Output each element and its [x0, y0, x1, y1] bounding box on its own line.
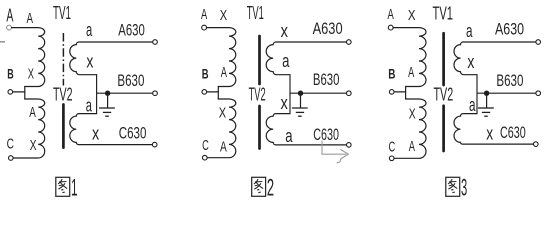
svg-text:A: A: [201, 6, 207, 23]
svg-text:A630: A630: [495, 20, 524, 39]
svg-text:X: X: [409, 106, 416, 123]
junction dot (grounded B630) fig3: [484, 91, 489, 96]
TV1 core bar (fig2): [258, 36, 261, 84]
svg-text:X: X: [220, 7, 227, 24]
svg-text:B: B: [7, 65, 13, 81]
svg-text:A: A: [220, 138, 227, 155]
ground (fig2): [292, 93, 308, 116]
svg-text:X: X: [28, 65, 34, 82]
TV2 core bar (fig3): [442, 106, 445, 151]
terminal B630 (fig2): [347, 91, 352, 96]
terminal B (fig1): [8, 90, 13, 95]
TV1 core bar (fig3): [442, 33, 445, 85]
TV1 primary winding (fig2): [207, 28, 236, 87]
svg-text:A630: A630: [313, 19, 343, 38]
wire: series junction vertical (fig3): [405, 87, 407, 100]
terminal C630 (fig3): [534, 142, 539, 147]
terminal A (fig3): [388, 25, 393, 30]
wire: secondary vertical lead (fig3): [476, 75, 478, 114]
svg-text:A: A: [408, 64, 414, 81]
svg-text:TV2: TV2: [249, 85, 266, 105]
caption 图2 glyph (fig2): [252, 177, 266, 196]
wire stub scan mark (left edge): [0, 41, 5, 43]
svg-text:X: X: [408, 7, 416, 24]
svg-text:3: 3: [461, 175, 467, 202]
TV2 secondary winding + C630 wire (fig3): [454, 114, 534, 144]
terminal B (fig2): [202, 90, 207, 95]
wire: B terminal to junction (fig2): [207, 91, 219, 93]
svg-text:A: A: [388, 6, 394, 23]
svg-text:C: C: [7, 136, 14, 153]
svg-text:B630: B630: [496, 71, 523, 90]
wire: B terminal to junction (fig3): [394, 91, 405, 93]
terminal A630 (fig2): [347, 40, 352, 45]
svg-text:x: x: [86, 52, 93, 72]
terminal C630 (fig2): [347, 143, 352, 148]
ground (fig1): [99, 93, 115, 116]
svg-text:x: x: [486, 124, 493, 144]
svg-text:C630: C630: [119, 124, 147, 143]
svg-text:TV1: TV1: [247, 3, 264, 23]
svg-text:TV2: TV2: [434, 85, 454, 105]
wire: B terminal to junction (fig1): [13, 91, 25, 93]
terminal C (fig2): [203, 155, 208, 160]
svg-text:a: a: [86, 96, 93, 116]
svg-text:B630: B630: [313, 70, 340, 89]
terminal C (fig3): [389, 156, 394, 161]
wire: secondary vertical lead (fig1): [96, 75, 98, 114]
svg-text:A: A: [29, 104, 36, 121]
svg-text:C: C: [202, 137, 209, 154]
svg-text:B: B: [202, 65, 209, 81]
svg-text:x: x: [281, 93, 288, 113]
TV1 primary winding (fig1): [12, 28, 45, 87]
TV1 secondary winding + A630 wire (fig1): [70, 42, 153, 75]
TV1 secondary winding + A630 wire (fig2): [266, 42, 346, 75]
TV1 core (dash-dot) fig1: [62, 33, 64, 86]
svg-text:B630: B630: [117, 71, 144, 90]
svg-text:x: x: [92, 124, 99, 144]
TV2 core bar (fig2): [258, 106, 261, 149]
wire: secondary vertical lead (fig2): [289, 75, 291, 114]
TV2 primary winding (fig1): [13, 99, 44, 158]
svg-text:a: a: [469, 95, 476, 115]
svg-text:x: x: [281, 21, 288, 41]
svg-text:C630: C630: [500, 123, 526, 142]
svg-text:a: a: [285, 126, 293, 146]
svg-text:TV2: TV2: [53, 85, 73, 105]
caption 图1 glyph (fig1): [56, 177, 70, 196]
svg-text:A: A: [221, 64, 227, 81]
svg-text:1: 1: [71, 175, 78, 202]
svg-text:B: B: [388, 65, 395, 81]
caption 图3 glyph (fig3): [446, 177, 460, 196]
TV2 primary winding (fig3): [394, 99, 426, 158]
TV2 core bar (fig1): [62, 105, 65, 148]
wire: B630 output (fig3): [477, 92, 536, 94]
terminal A (fig2): [202, 25, 207, 30]
svg-text:A: A: [6, 5, 13, 25]
svg-text:A630: A630: [118, 21, 145, 40]
TV2 secondary winding + C630 wire (fig1): [70, 114, 153, 145]
terminal B (fig3): [389, 90, 394, 95]
svg-text:2: 2: [267, 175, 274, 202]
svg-text:TV1: TV1: [433, 4, 454, 24]
svg-text:A: A: [409, 138, 415, 155]
svg-text:TV1: TV1: [53, 3, 71, 23]
svg-text:a: a: [466, 21, 473, 41]
ground (fig3): [478, 93, 494, 116]
junction dot (grounded B630) fig2: [298, 91, 303, 96]
svg-text:C: C: [389, 139, 396, 156]
junction dot (grounded B630) fig1: [105, 91, 110, 96]
svg-text:X: X: [30, 137, 37, 154]
svg-text:a: a: [282, 51, 290, 71]
annotation arrow near C630 (fig2): [322, 141, 348, 163]
wire: B630 output (fig2): [290, 92, 347, 94]
TV2 secondary winding + C630 wire (fig2): [266, 114, 346, 145]
terminal B630 (fig3): [536, 91, 541, 96]
svg-text:A: A: [27, 10, 34, 27]
wire: series junction vertical (fig2): [217, 87, 219, 100]
svg-text:C630: C630: [313, 125, 339, 144]
wire: series junction vertical (fig1): [24, 87, 26, 100]
wire: B630 output (fig1): [97, 92, 153, 94]
svg-text:x: x: [467, 52, 474, 72]
TV1 secondary winding + A630 wire (fig3): [454, 42, 536, 75]
svg-text:X: X: [219, 105, 226, 122]
terminal A (fig1): [7, 25, 12, 30]
terminal C630 (fig1): [152, 142, 157, 147]
TV2 primary winding (fig2): [207, 99, 236, 158]
terminal B630 (fig1): [153, 91, 158, 96]
terminal A630 (fig1): [153, 40, 158, 45]
svg-text:a: a: [86, 20, 93, 40]
terminal C (fig1): [9, 156, 14, 161]
TV1 primary winding (fig3): [393, 28, 426, 87]
terminal A630 (fig3): [536, 40, 541, 45]
